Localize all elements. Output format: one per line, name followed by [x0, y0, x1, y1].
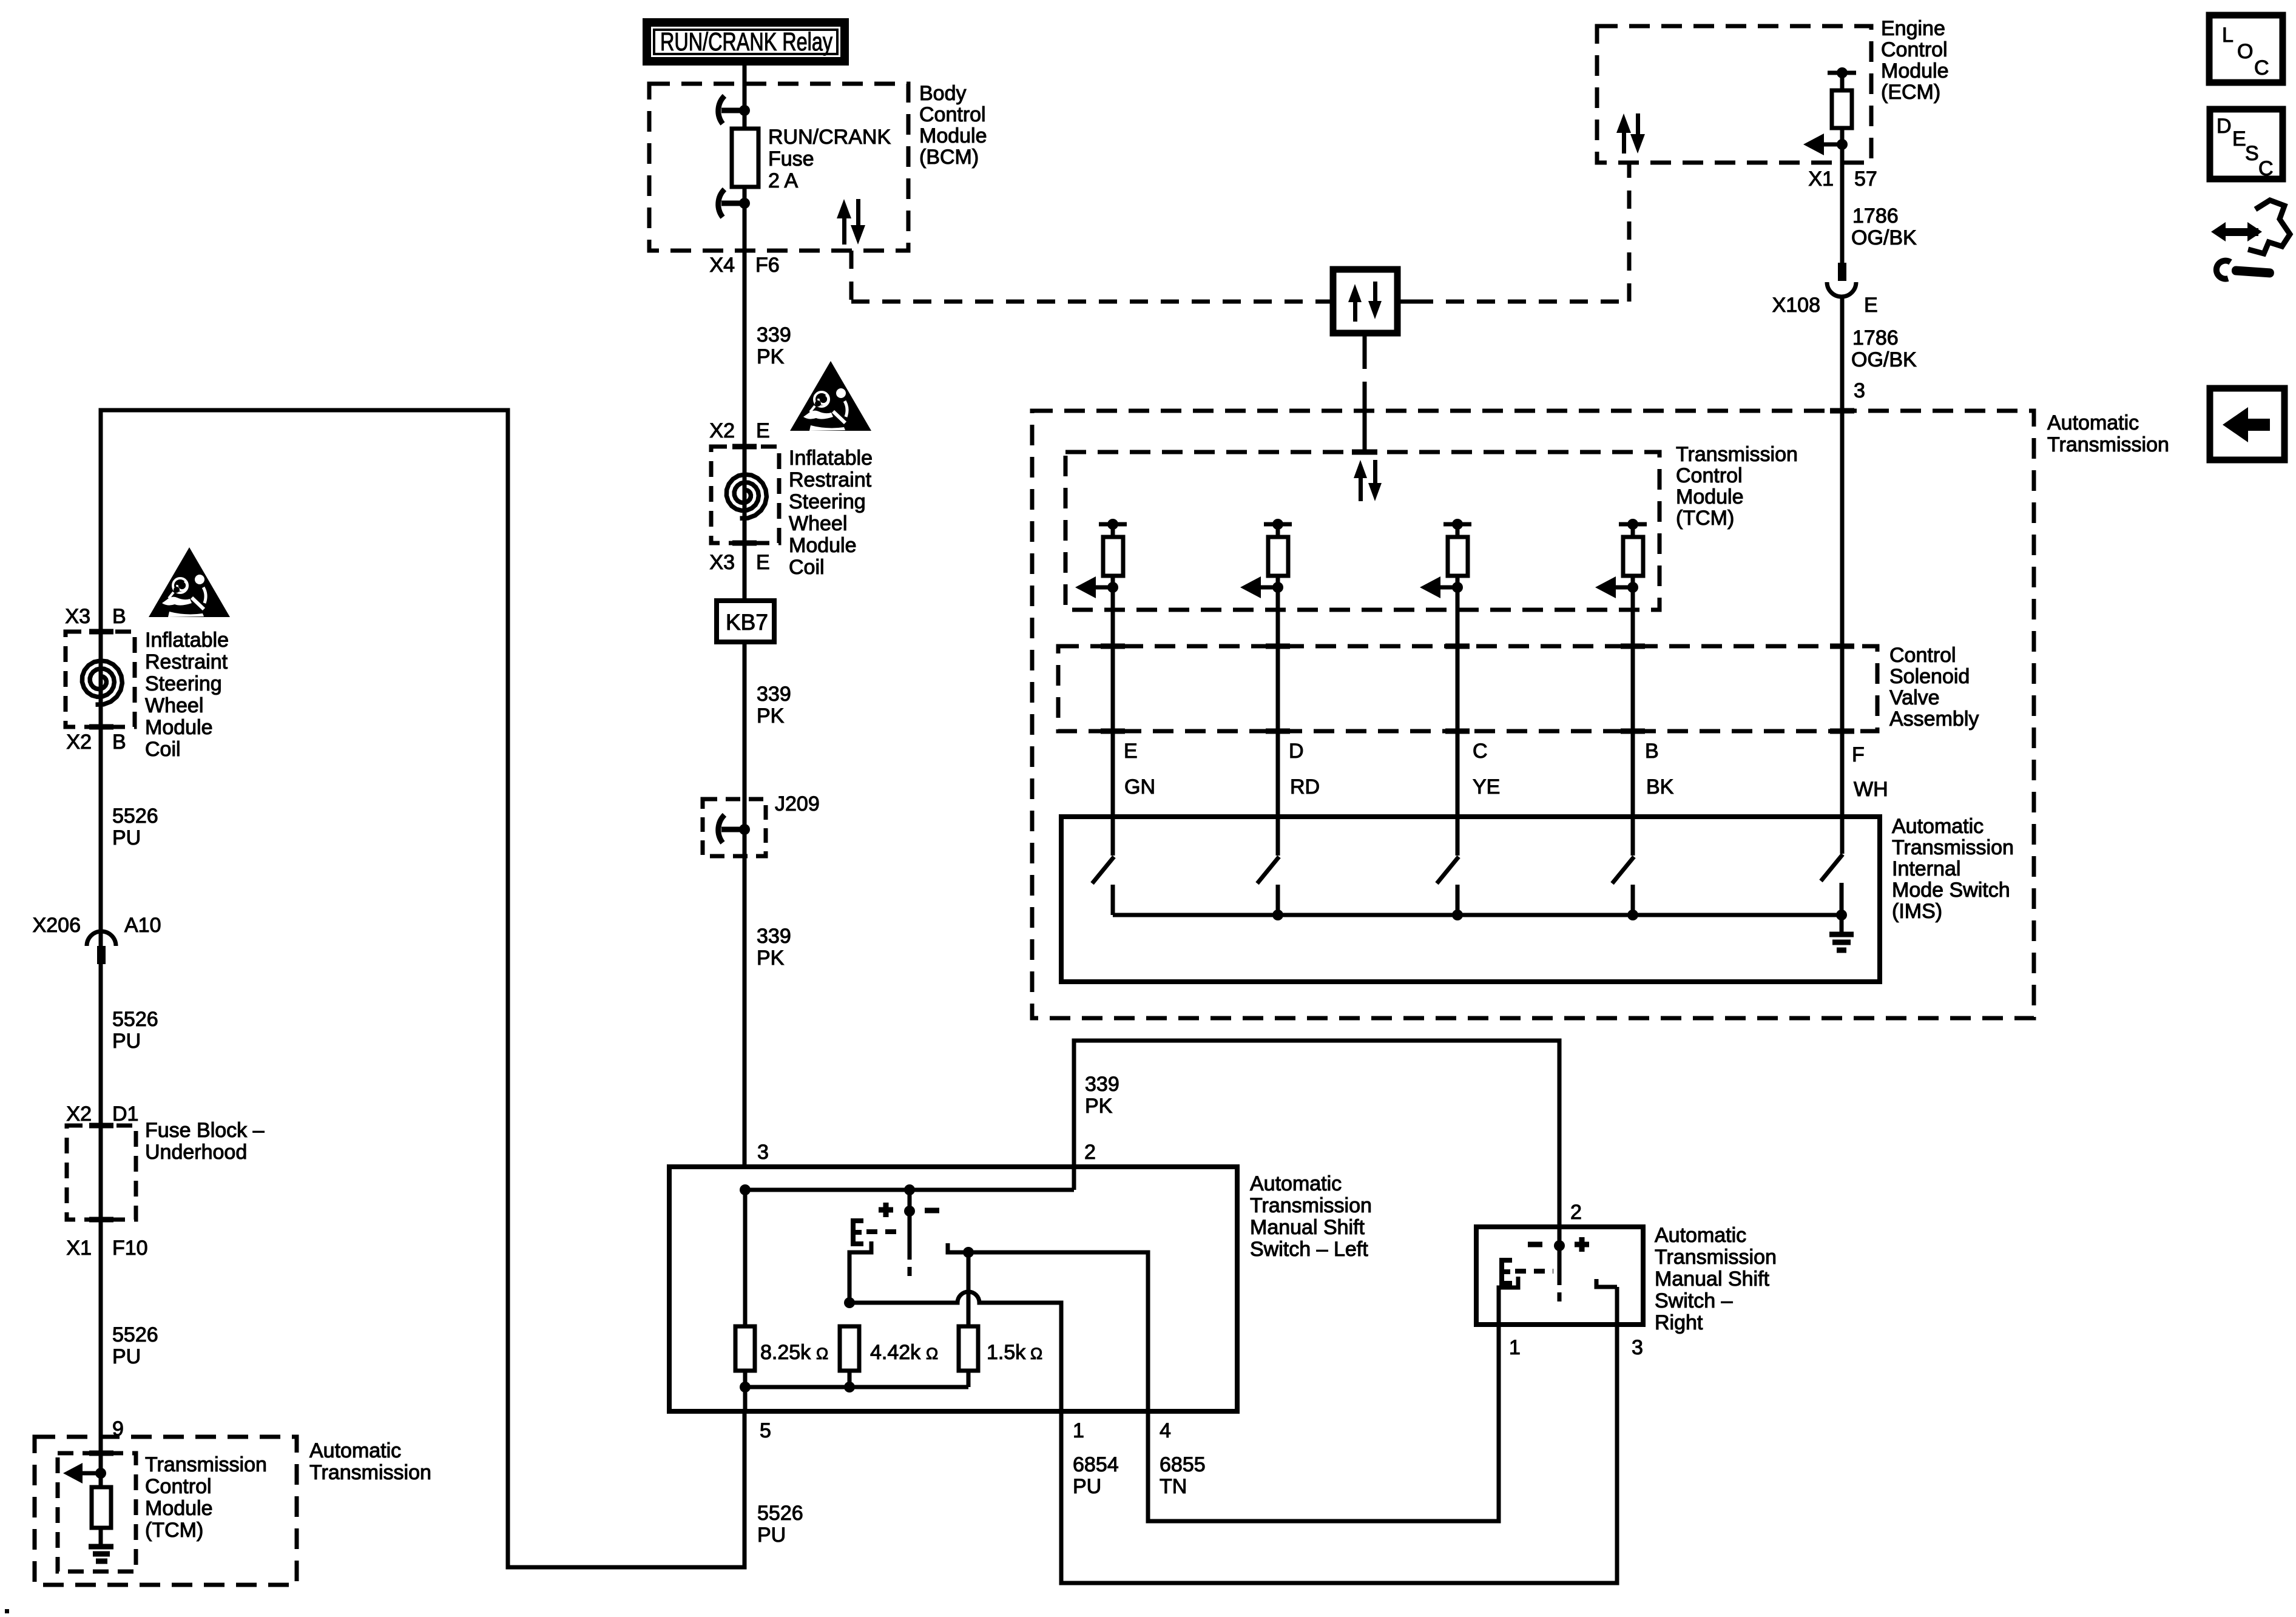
svg-text:Transmission: Transmission	[145, 1453, 267, 1476]
wire resistor to node	[1840, 128, 1845, 144]
E common bracket	[1502, 1260, 1512, 1283]
junction dot below fuse	[739, 198, 750, 209]
Inflatable Restraint coil dashed box (left)	[66, 632, 135, 727]
wire resistor to ground	[99, 1528, 103, 1545]
ECM bar dot	[1837, 67, 1848, 78]
svg-text:(IMS): (IMS)	[1892, 900, 1942, 923]
svg-text:6855: 6855	[1160, 1453, 1206, 1476]
tick bottom	[89, 1217, 113, 1223]
tick top	[89, 629, 113, 635]
dashed link E to blade	[866, 1229, 904, 1234]
warning triangle (airbag) left	[149, 547, 230, 617]
inline connector X108 E	[1827, 263, 1856, 297]
tick top	[89, 1451, 113, 1456]
svg-text:E: E	[1864, 294, 1878, 317]
dashed run to data box	[851, 300, 1315, 304]
svg-text:L: L	[2222, 24, 2234, 47]
TCM signal arrow	[81, 1471, 101, 1476]
svg-text:5526: 5526	[757, 1502, 803, 1525]
svg-text:X2: X2	[66, 731, 92, 754]
IMS switch C	[1437, 857, 1459, 915]
svg-text:Ω: Ω	[926, 1345, 938, 1363]
wire 6854 PU pin1 to right switch pin3	[1061, 1325, 1617, 1583]
svg-text:O: O	[2237, 40, 2253, 63]
big loop wire: pin5 bottom run, right riser, top run, left drop	[101, 410, 745, 1567]
right contact bracket	[1596, 1279, 1617, 1287]
svg-text:BK: BK	[1646, 775, 1674, 798]
wire: ECM out to X108	[1840, 144, 1845, 263]
top rail pin3 to pin2	[745, 1188, 1074, 1192]
tick bottom	[732, 541, 757, 546]
svg-text:8.25k: 8.25k	[760, 1341, 811, 1364]
svg-text:Assembly: Assembly	[1889, 707, 1979, 731]
svg-text:5: 5	[760, 1419, 771, 1442]
rail dot at pivot	[904, 1184, 915, 1195]
DESC box	[2210, 109, 2283, 179]
svg-text:E: E	[756, 419, 770, 442]
ECM stub tick	[1627, 163, 1632, 178]
svg-text:Module: Module	[1676, 485, 1744, 508]
svg-text:2: 2	[1084, 1141, 1096, 1164]
ECM node dot	[1837, 139, 1848, 150]
svg-text:OG/BK: OG/BK	[1851, 348, 1917, 371]
svg-text:1.5k: 1.5k	[987, 1341, 1026, 1364]
svg-text:Transmission: Transmission	[309, 1461, 431, 1484]
svg-text:Right: Right	[1655, 1311, 1703, 1334]
TCM dashed box (bottom left)	[58, 1453, 136, 1571]
339 PK feed: pin2 riser and run to right switch	[1074, 1041, 1559, 1227]
Inflatable Restraint Steering Wheel Module Coil dashed box (center)	[711, 447, 779, 543]
svg-text:2 A: 2 A	[768, 169, 798, 192]
svg-text:3: 3	[1854, 379, 1865, 402]
E common bracket	[853, 1221, 863, 1244]
svg-text:Control: Control	[1676, 464, 1743, 487]
svg-text:F6: F6	[755, 254, 780, 277]
svg-text:Inflatable: Inflatable	[789, 447, 873, 470]
serial data box	[1333, 269, 1397, 333]
svg-text:X1: X1	[66, 1237, 92, 1260]
fuse clip upper (RUN/CRANK fuse)	[718, 96, 745, 124]
wire contact down to 1.5k	[967, 1252, 971, 1327]
TCM branch D	[1240, 519, 1292, 856]
svg-text:PU: PU	[757, 1524, 786, 1547]
IMS switch B	[1612, 857, 1634, 915]
svg-text:X2: X2	[709, 419, 735, 442]
svg-text:Mode Switch: Mode Switch	[1892, 879, 2010, 902]
svg-text:Automatic: Automatic	[2047, 411, 2139, 434]
wrench and arrow diagnostic icon	[2211, 200, 2290, 279]
svg-text:A10: A10	[124, 914, 161, 937]
wire through J209 down to shift switch pin 3	[743, 799, 747, 1167]
fuse RUN/CRANK Fuse 2A	[732, 129, 758, 187]
ground symbol (TCM)	[89, 1547, 113, 1561]
serial data arrows in ECM	[1616, 113, 1645, 154]
svg-text:D: D	[2217, 115, 2232, 138]
svg-text:RD: RD	[1290, 775, 1320, 798]
tick top	[89, 1123, 113, 1129]
svg-text:Restraint: Restraint	[789, 468, 872, 491]
svg-text:Fuse: Fuse	[768, 147, 814, 170]
svg-text:Restraint: Restraint	[145, 650, 228, 673]
svg-text:5526: 5526	[112, 805, 158, 828]
svg-text:2: 2	[1570, 1201, 1582, 1224]
svg-text:57: 57	[1854, 167, 1877, 191]
resistor 8.25k	[735, 1326, 755, 1371]
svg-text:5526: 5526	[112, 1323, 158, 1346]
svg-text:C: C	[1473, 740, 1488, 763]
svg-text:B: B	[112, 605, 126, 628]
svg-text:E: E	[2232, 127, 2246, 150]
switch blade	[908, 1211, 912, 1260]
svg-text:Module: Module	[1881, 59, 1949, 83]
warning triangle (airbag) center	[790, 361, 871, 431]
svg-text:3: 3	[1632, 1336, 1643, 1359]
svg-text:(ECM): (ECM)	[1881, 81, 1940, 104]
bottom rail	[745, 1385, 968, 1389]
blade tip dash	[908, 1267, 912, 1276]
leads to bottom rail	[743, 1371, 748, 1411]
CSVA ticks at wire crossings	[1101, 646, 1854, 731]
svg-text:339: 339	[1085, 1073, 1119, 1096]
back arrow box	[2210, 388, 2284, 460]
svg-text:Control: Control	[145, 1475, 212, 1498]
pin2 stem inside	[1558, 1227, 1562, 1246]
svg-text:Automatic: Automatic	[1655, 1224, 1746, 1247]
RUN/CRANK Relay title box	[647, 22, 845, 61]
svg-text:X3: X3	[709, 551, 735, 574]
IMS switch F	[1821, 854, 1843, 915]
rail junction dots	[1272, 910, 1283, 920]
svg-text:Manual Shift: Manual Shift	[1250, 1216, 1365, 1239]
clockspring coil spiral (left)	[82, 661, 122, 704]
svg-text:3: 3	[757, 1141, 769, 1164]
svg-text:X1: X1	[1808, 167, 1834, 191]
dashed drop from BCM	[849, 251, 854, 302]
svg-text:339: 339	[757, 323, 791, 346]
svg-text:339: 339	[757, 683, 791, 706]
rail A with hop to pin1 column	[849, 1292, 1061, 1411]
svg-text:4.42k: 4.42k	[870, 1341, 921, 1364]
dashed riser to ECM	[1627, 176, 1632, 302]
svg-text:(TCM): (TCM)	[145, 1519, 203, 1542]
shift switch right box	[1476, 1227, 1643, 1325]
svg-text:X206: X206	[33, 914, 81, 937]
data box stubs	[1315, 300, 1333, 304]
svg-text:Module: Module	[919, 124, 987, 147]
svg-text:F: F	[1852, 743, 1865, 766]
Control Solenoid Valve Assembly dashed box	[1058, 646, 1877, 731]
svg-text:X2: X2	[66, 1102, 92, 1126]
svg-text:YE: YE	[1473, 775, 1500, 798]
splice J209 dashed box	[703, 799, 766, 856]
svg-text:Fuse Block –: Fuse Block –	[145, 1119, 265, 1142]
tick top	[732, 444, 757, 450]
svg-text:1786: 1786	[1852, 204, 1899, 228]
svg-text:339: 339	[757, 925, 791, 948]
fuse clip lower	[718, 189, 745, 217]
pin3 drop	[1615, 1287, 1619, 1325]
svg-text:Transmission: Transmission	[1892, 836, 2014, 859]
ECM signal arrow	[1823, 143, 1842, 147]
svg-text:RUN/CRANK Relay: RUN/CRANK Relay	[660, 27, 832, 56]
shift switch left box	[669, 1167, 1237, 1411]
TCM branch E	[1075, 519, 1127, 856]
svg-text:X3: X3	[65, 605, 90, 628]
svg-text:Switch – Left: Switch – Left	[1250, 1238, 1368, 1261]
svg-text:Coil: Coil	[789, 556, 825, 579]
blade tip dash	[1558, 1292, 1562, 1301]
ECM pull-up bar	[1828, 71, 1856, 75]
dashed drop data box to TCM	[1363, 333, 1367, 351]
Automatic Transmission outer dashed box	[1032, 411, 2034, 1018]
plus sign	[1575, 1237, 1589, 1252]
svg-text:J209: J209	[775, 792, 820, 815]
IMS solid box	[1061, 817, 1880, 982]
back arrow	[2223, 407, 2270, 442]
svg-text:C: C	[2258, 157, 2274, 180]
svg-text:Steering: Steering	[789, 490, 866, 513]
svg-text:RUN/CRANK: RUN/CRANK	[768, 126, 891, 149]
svg-text:B: B	[112, 731, 126, 754]
svg-text:Transmission: Transmission	[1250, 1194, 1372, 1217]
svg-text:E: E	[756, 551, 770, 574]
Fuse Block - Underhood dashed box	[67, 1126, 136, 1220]
serial data arrows in TCM	[1354, 460, 1382, 501]
svg-text:Underhood: Underhood	[145, 1141, 247, 1164]
svg-text:4: 4	[1160, 1419, 1171, 1442]
stray mark bottom left	[5, 1609, 9, 1613]
svg-text:1: 1	[1509, 1336, 1521, 1359]
J209 junction dot	[739, 824, 750, 835]
svg-text:5526: 5526	[112, 1008, 158, 1031]
ECM pull-up resistor	[1832, 90, 1852, 128]
svg-text:Automatic: Automatic	[309, 1439, 401, 1462]
dashed link E to blade	[1515, 1269, 1553, 1274]
wire 6855 TN pin4 to right switch pin1	[1148, 1325, 1499, 1521]
tick bottom	[89, 724, 113, 730]
junction dot above fuse	[739, 105, 750, 116]
svg-text:Transmission: Transmission	[2047, 433, 2169, 456]
svg-text:PK: PK	[757, 947, 785, 970]
wire contact to pin4 column	[968, 1252, 1148, 1411]
svg-text:Inflatable: Inflatable	[145, 629, 229, 652]
svg-text:Transmission: Transmission	[1676, 443, 1798, 466]
IMS common rail	[1113, 913, 1842, 917]
svg-text:Manual Shift: Manual Shift	[1655, 1268, 1770, 1291]
pin1 riser to E	[1499, 1277, 1518, 1325]
wire: relay output 339 PK center column (into BCM)	[743, 66, 747, 129]
svg-text:Internal: Internal	[1892, 857, 1960, 880]
Body Control Module (BCM) dashed box	[649, 84, 908, 251]
pin3/5 column through resistor	[743, 1190, 748, 1326]
svg-text:D: D	[1289, 740, 1304, 763]
svg-text:PU: PU	[112, 1030, 141, 1053]
plus sign	[879, 1203, 893, 1217]
switch blade	[1558, 1246, 1562, 1285]
svg-text:Module: Module	[145, 716, 213, 739]
svg-text:GN: GN	[1124, 775, 1155, 798]
svg-text:D1: D1	[112, 1102, 138, 1126]
svg-text:Ω: Ω	[1030, 1345, 1042, 1363]
svg-text:Module: Module	[145, 1497, 213, 1520]
svg-text:Control: Control	[919, 103, 986, 126]
TCM input junction dot	[95, 1468, 106, 1479]
wire through coil	[743, 447, 747, 543]
svg-text:Wheel: Wheel	[789, 512, 847, 535]
tick at TCM edge	[1352, 450, 1377, 455]
wire: KB7 to J209	[743, 642, 747, 799]
splice pack KB7 box	[717, 601, 774, 642]
LOC box	[2209, 15, 2283, 83]
resistor 1.5k	[959, 1326, 978, 1371]
svg-text:OG/BK: OG/BK	[1851, 226, 1917, 249]
bottom rail dots	[740, 1382, 751, 1393]
svg-text:1786: 1786	[1852, 326, 1899, 349]
minus sign	[1528, 1242, 1542, 1247]
wire: coil to KB7	[743, 543, 747, 601]
pivot dot	[904, 1206, 915, 1217]
svg-text:KB7: KB7	[726, 610, 768, 635]
wire: fuse to BCM bottom edge	[743, 187, 747, 251]
Engine Control Module dashed box	[1597, 26, 1871, 163]
svg-text:C: C	[2254, 56, 2269, 79]
svg-text:(TCM): (TCM)	[1676, 507, 1734, 530]
serial data arrows in data box	[1348, 282, 1382, 322]
tick at AT top edge (F wire)	[1830, 408, 1854, 414]
svg-text:Body: Body	[919, 82, 967, 105]
svg-text:Automatic: Automatic	[1250, 1172, 1342, 1195]
svg-text:B: B	[1645, 740, 1659, 763]
right contact bracket	[948, 1243, 973, 1252]
svg-text:Ω: Ω	[816, 1345, 828, 1363]
svg-text:S: S	[2245, 142, 2259, 165]
svg-text:PU: PU	[112, 826, 141, 849]
svg-text:X108: X108	[1772, 294, 1820, 317]
IMS switch E	[1092, 857, 1114, 915]
svg-text:E: E	[1124, 740, 1138, 763]
svg-text:TN: TN	[1160, 1475, 1187, 1498]
svg-text:PU: PU	[1073, 1475, 1101, 1498]
svg-text:Engine: Engine	[1881, 17, 1945, 40]
wire: X108 to transmission	[1840, 295, 1845, 854]
contact dot	[963, 1247, 974, 1258]
Transmission Control Module dashed box	[1065, 452, 1660, 610]
node dot resistor rail left	[844, 1297, 855, 1308]
svg-text:1: 1	[1073, 1419, 1084, 1442]
wire rail to ground	[1840, 915, 1844, 932]
svg-text:F10: F10	[112, 1237, 148, 1260]
serial data arrows in BCM	[837, 199, 865, 245]
ground symbol (IMS)	[1829, 934, 1854, 950]
resistor 4.42k	[840, 1326, 859, 1371]
svg-text:(BCM): (BCM)	[919, 146, 979, 169]
svg-text:Steering: Steering	[145, 672, 222, 695]
svg-text:PK: PK	[757, 704, 785, 727]
svg-text:6854: 6854	[1073, 1453, 1119, 1476]
TCM pull-down resistor	[92, 1487, 111, 1528]
svg-text:PK: PK	[757, 345, 785, 368]
J209 clip	[718, 815, 745, 843]
svg-text:Control: Control	[1889, 644, 1956, 667]
dashed run data box to ECM riser	[1415, 300, 1629, 304]
svg-text:Control: Control	[1881, 38, 1948, 61]
svg-text:PK: PK	[1085, 1095, 1113, 1118]
svg-text:X4: X4	[709, 254, 735, 277]
TCM branch C	[1420, 519, 1471, 856]
Automatic Transmission dashed box (bottom left)	[35, 1437, 297, 1585]
svg-text:WH: WH	[1854, 778, 1888, 801]
svg-text:Transmission: Transmission	[1655, 1246, 1777, 1269]
wire bar to resistor	[1840, 73, 1845, 90]
svg-text:PU: PU	[112, 1345, 141, 1368]
svg-text:Wheel: Wheel	[145, 694, 203, 717]
minus sign	[925, 1208, 939, 1214]
svg-text:Solenoid: Solenoid	[1889, 665, 1970, 688]
E common wire to resistor node	[849, 1241, 871, 1303]
svg-text:Coil: Coil	[145, 738, 181, 761]
clockspring coil spiral (center)	[726, 474, 766, 518]
pivot stem	[908, 1190, 912, 1211]
BCM-ECM serial data dashed route	[851, 176, 1629, 302]
svg-text:Automatic: Automatic	[1892, 815, 1984, 838]
wire: 339 PK BCM to coil	[743, 251, 747, 447]
TCM branch B	[1595, 519, 1647, 856]
IMS switch D	[1257, 857, 1279, 915]
svg-text:Valve: Valve	[1889, 686, 1940, 709]
inline connector X206 A10	[87, 931, 116, 964]
rail dot at pin3 column	[740, 1184, 751, 1195]
svg-text:Switch –: Switch –	[1655, 1289, 1733, 1312]
svg-text:Module: Module	[789, 534, 857, 557]
pivot dot	[1554, 1240, 1565, 1251]
